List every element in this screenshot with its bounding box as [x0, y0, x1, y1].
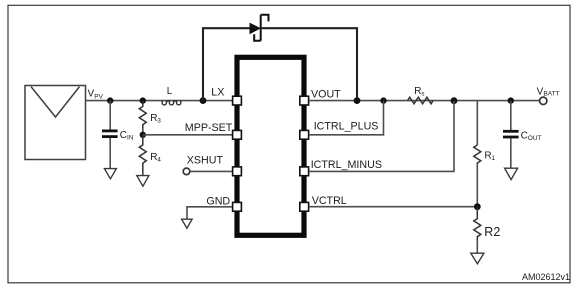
- pin ICTRL_MINUS: [300, 167, 309, 176]
- svg-text:C: C: [521, 130, 528, 141]
- svg-text:4: 4: [157, 156, 161, 163]
- resistor Rs: [408, 97, 434, 104]
- resistor R1 label: [484, 150, 495, 162]
- svg-text:3: 3: [157, 118, 161, 125]
- schottky diode D1: [250, 15, 269, 41]
- wire CIN lower lead: [109, 138, 111, 169]
- pin MPP-SET: [233, 130, 242, 139]
- IC body U1: [237, 57, 304, 235]
- junction CIN tap: [107, 97, 113, 103]
- pin ICTRL_PLUS: [300, 130, 309, 139]
- svg-text:PV: PV: [94, 94, 103, 101]
- pin LX: [233, 96, 242, 105]
- resistor R4: [139, 135, 146, 176]
- wire ICTRL_MINUS: [309, 101, 454, 172]
- svg-text:MPP-SET: MPP-SET: [185, 122, 233, 134]
- resistor Rs label: [414, 86, 425, 98]
- resistor R3 label: [150, 113, 161, 125]
- ground R2: [471, 253, 484, 264]
- svg-text:BATT: BATT: [543, 91, 559, 98]
- solar panel PV: [25, 86, 86, 160]
- wire XSHUT: [190, 170, 232, 172]
- resistor R4 label: [150, 152, 161, 164]
- inductor L: [162, 100, 181, 105]
- junction MPP-SET: [140, 132, 146, 138]
- wire GND: [187, 207, 232, 219]
- wire R2 lower lead: [476, 240, 478, 253]
- pin GND: [233, 202, 242, 211]
- svg-text:VCTRL: VCTRL: [312, 195, 347, 207]
- wire diode to VOUT riser: [262, 28, 357, 100]
- wire COUT upper lead: [510, 101, 512, 130]
- svg-text:AM02612v1: AM02612v1: [522, 272, 570, 282]
- capacitor COUT: [503, 131, 519, 137]
- svg-text:ICTRL_PLUS: ICTRL_PLUS: [314, 120, 379, 132]
- ground R4: [137, 176, 149, 187]
- terminal XSHUT: [183, 168, 190, 175]
- terminal VBATT: [540, 97, 547, 104]
- resistor R2: [474, 207, 481, 241]
- junction ICTRL_PLUS tap: [380, 97, 386, 103]
- wire CIN upper lead: [109, 101, 111, 130]
- wire R3 to MPPSET junction: [142, 129, 144, 135]
- ground CIN: [104, 169, 116, 179]
- wire VOUT to VBATT: [309, 100, 540, 102]
- capacitor CIN: [102, 131, 118, 137]
- svg-text:LX: LX: [211, 86, 224, 98]
- junction VCTRL R1 R2: [474, 203, 481, 210]
- junction COUT tap: [508, 97, 514, 103]
- node VBATT label: [537, 86, 560, 97]
- svg-text:OUT: OUT: [528, 135, 542, 142]
- wire MPP-SET: [143, 134, 232, 136]
- junction diode right: [354, 97, 361, 104]
- wire VPV main (panel to LX pin): [86, 100, 233, 102]
- svg-text:C: C: [120, 130, 127, 141]
- ground COUT: [505, 168, 518, 179]
- svg-text:IN: IN: [127, 134, 134, 141]
- svg-text:GND: GND: [206, 195, 230, 207]
- ground GND pin: [182, 219, 193, 228]
- svg-text:L: L: [167, 86, 173, 97]
- pin XSHUT: [233, 167, 242, 176]
- svg-text:1: 1: [491, 155, 495, 162]
- junction R3 tap: [140, 97, 146, 103]
- resistor R3: [139, 101, 146, 130]
- svg-text:VOUT: VOUT: [311, 89, 341, 101]
- capacitor CIN label: [120, 130, 134, 142]
- wire ICTRL_PLUS: [309, 101, 384, 135]
- capacitor COUT label: [521, 130, 542, 142]
- pin VOUT: [300, 96, 309, 105]
- svg-text:XSHUT: XSHUT: [187, 154, 224, 166]
- resistor R1: [474, 145, 481, 165]
- junction Rs right / ICTRL_MINUS tap: [451, 97, 458, 104]
- svg-text:ICTRL_MINUS: ICTRL_MINUS: [311, 159, 382, 171]
- pin VCTRL: [300, 202, 309, 211]
- wire R1 upper lead: [476, 101, 478, 145]
- svg-text:R2: R2: [484, 225, 500, 239]
- node VPV label: [88, 89, 104, 101]
- wire VCTRL: [309, 206, 478, 208]
- wire diode riser left: [203, 28, 250, 100]
- junction LX diode tap: [200, 97, 207, 104]
- wire COUT lower lead: [510, 138, 512, 168]
- wire R1 lower lead: [476, 164, 478, 207]
